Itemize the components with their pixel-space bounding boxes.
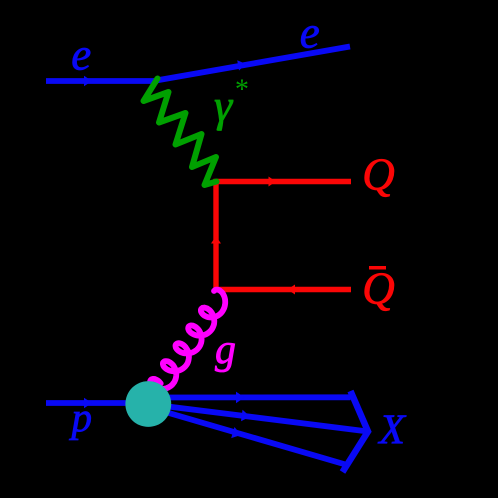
wire incoming proton line xyxy=(46,400,150,406)
svg-text:*: * xyxy=(234,75,248,106)
arrow remnant line 1 xyxy=(236,392,245,404)
wire proton remnant line 3 xyxy=(150,408,346,465)
arrow incoming proton xyxy=(84,398,92,408)
wire outgoing electron line xyxy=(156,47,350,81)
wire antiquark line Qbar bottom xyxy=(214,287,352,292)
arrow quark Q right xyxy=(269,177,277,187)
arrow remnant line 3 xyxy=(231,427,241,438)
bracket X grouping xyxy=(343,391,369,472)
arrow quark vertical up xyxy=(211,236,221,244)
svg-text:p: p xyxy=(69,394,93,440)
gluon coil line g xyxy=(150,290,225,389)
svg-text:X: X xyxy=(377,408,407,454)
wire quark line Q top xyxy=(214,179,352,184)
svg-text:e: e xyxy=(300,8,320,58)
arrow remnant line 2 xyxy=(241,410,250,422)
wire proton remnant line 1 xyxy=(150,394,351,400)
wire incoming electron line xyxy=(46,78,158,84)
wire quark line vertical xyxy=(213,179,218,292)
svg-text:γ: γ xyxy=(214,80,234,131)
svg-text:Q: Q xyxy=(362,264,395,314)
arrow outgoing electron xyxy=(237,60,246,70)
proton blob xyxy=(125,381,171,427)
wire proton remnant line 2 xyxy=(150,404,369,431)
svg-text:g: g xyxy=(215,327,236,373)
label Qbar overline xyxy=(369,266,386,270)
photon wavy line gamma* xyxy=(144,79,217,186)
svg-text:Q: Q xyxy=(362,150,395,200)
svg-text:e: e xyxy=(71,30,91,80)
arrow incoming electron xyxy=(84,76,92,86)
arrow antiquark left xyxy=(288,285,296,295)
